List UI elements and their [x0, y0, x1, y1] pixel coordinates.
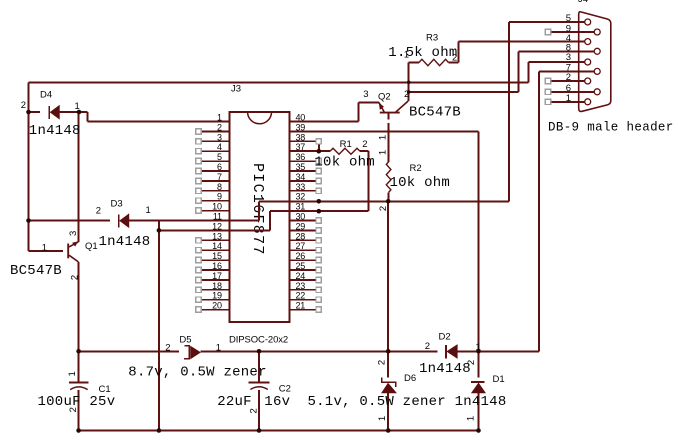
- svg-text:13: 13: [212, 231, 222, 241]
- svg-text:1: 1: [42, 243, 47, 254]
- svg-text:35: 35: [296, 162, 306, 172]
- svg-text:1: 1: [377, 150, 388, 155]
- svg-text:D1: D1: [493, 374, 505, 385]
- svg-text:10: 10: [212, 202, 222, 212]
- svg-text:2: 2: [376, 360, 387, 365]
- svg-text:2: 2: [404, 89, 409, 100]
- svg-text:1: 1: [566, 93, 571, 104]
- svg-text:D3: D3: [111, 199, 123, 210]
- svg-text:Q1: Q1: [85, 241, 98, 252]
- svg-text:1: 1: [377, 416, 388, 421]
- svg-text:36: 36: [296, 152, 306, 162]
- svg-text:2: 2: [68, 407, 79, 412]
- svg-text:25: 25: [296, 261, 306, 271]
- svg-text:D4: D4: [40, 90, 52, 101]
- svg-text:R3: R3: [426, 33, 438, 44]
- svg-text:15: 15: [212, 251, 222, 261]
- svg-text:22uF: 22uF: [217, 394, 252, 410]
- svg-text:9: 9: [217, 192, 222, 202]
- svg-text:J4: J4: [578, 0, 588, 5]
- svg-text:27: 27: [296, 241, 306, 251]
- svg-text:29: 29: [296, 221, 306, 231]
- svg-text:2: 2: [466, 360, 477, 365]
- svg-text:1: 1: [75, 101, 80, 112]
- svg-text:J3: J3: [231, 84, 241, 95]
- svg-text:20: 20: [212, 301, 222, 311]
- svg-text:1: 1: [476, 342, 481, 353]
- svg-text:DB-9 male header: DB-9 male header: [548, 121, 674, 135]
- svg-text:31: 31: [296, 202, 306, 212]
- svg-text:BC547B: BC547B: [10, 263, 62, 279]
- svg-text:1: 1: [216, 343, 221, 354]
- svg-text:1: 1: [146, 205, 151, 216]
- svg-text:BC547B: BC547B: [409, 105, 461, 121]
- svg-text:2: 2: [362, 139, 367, 150]
- svg-text:2: 2: [96, 206, 101, 217]
- svg-text:5: 5: [217, 152, 222, 162]
- svg-text:D2: D2: [439, 332, 451, 343]
- svg-text:1: 1: [377, 135, 388, 140]
- svg-text:1: 1: [404, 50, 409, 61]
- svg-text:21: 21: [296, 301, 306, 311]
- svg-text:1: 1: [466, 416, 477, 421]
- svg-text:28: 28: [296, 231, 306, 241]
- svg-text:3: 3: [217, 132, 222, 142]
- svg-text:8: 8: [217, 182, 222, 192]
- svg-text:19: 19: [212, 291, 222, 301]
- svg-text:2: 2: [378, 206, 389, 211]
- svg-text:4: 4: [217, 142, 222, 152]
- svg-text:14: 14: [212, 241, 222, 251]
- svg-text:C2: C2: [279, 384, 291, 395]
- svg-text:2: 2: [21, 100, 26, 111]
- svg-text:30: 30: [296, 212, 306, 222]
- svg-text:D6: D6: [404, 373, 416, 384]
- svg-text:5.1v, 0.5W zener 1n4148: 5.1v, 0.5W zener 1n4148: [308, 394, 507, 410]
- svg-text:2: 2: [248, 408, 259, 413]
- svg-text:7: 7: [217, 172, 222, 182]
- svg-text:2: 2: [165, 343, 170, 354]
- svg-text:3: 3: [68, 231, 79, 236]
- svg-text:1n4148: 1n4148: [99, 234, 151, 250]
- svg-text:26: 26: [296, 251, 306, 261]
- svg-text:10k ohm: 10k ohm: [314, 154, 375, 170]
- svg-text:R1: R1: [340, 139, 352, 150]
- svg-text:18: 18: [212, 281, 222, 291]
- svg-text:32: 32: [296, 192, 306, 202]
- svg-text:38: 38: [296, 132, 306, 142]
- svg-text:2: 2: [217, 122, 222, 132]
- svg-text:1n4148: 1n4148: [29, 123, 81, 139]
- svg-text:D5: D5: [179, 335, 191, 346]
- svg-text:33: 33: [296, 182, 306, 192]
- svg-text:DIPSOC-20x2: DIPSOC-20x2: [229, 335, 288, 346]
- svg-text:R2: R2: [410, 163, 422, 174]
- svg-text:34: 34: [296, 172, 306, 182]
- svg-text:2: 2: [566, 72, 571, 83]
- svg-text:1n4148: 1n4148: [419, 361, 471, 377]
- svg-text:2: 2: [69, 275, 80, 280]
- svg-text:8.7v, 0.5W zener: 8.7v, 0.5W zener: [128, 365, 266, 381]
- svg-text:23: 23: [296, 281, 306, 291]
- svg-text:17: 17: [212, 271, 222, 281]
- svg-text:PIC16F877: PIC16F877: [249, 163, 266, 256]
- svg-text:10k ohm: 10k ohm: [390, 175, 451, 191]
- svg-text:C1: C1: [99, 384, 111, 395]
- svg-text:3: 3: [363, 89, 368, 100]
- svg-text:2: 2: [425, 341, 430, 352]
- svg-text:Q2: Q2: [378, 92, 391, 103]
- svg-text:16: 16: [212, 261, 222, 271]
- svg-text:2: 2: [452, 53, 457, 64]
- svg-text:1.5k ohm: 1.5k ohm: [388, 45, 457, 61]
- svg-text:6: 6: [217, 162, 222, 172]
- svg-text:22: 22: [296, 291, 306, 301]
- svg-text:1: 1: [67, 371, 78, 376]
- svg-text:16v: 16v: [264, 394, 290, 410]
- svg-text:24: 24: [296, 271, 306, 281]
